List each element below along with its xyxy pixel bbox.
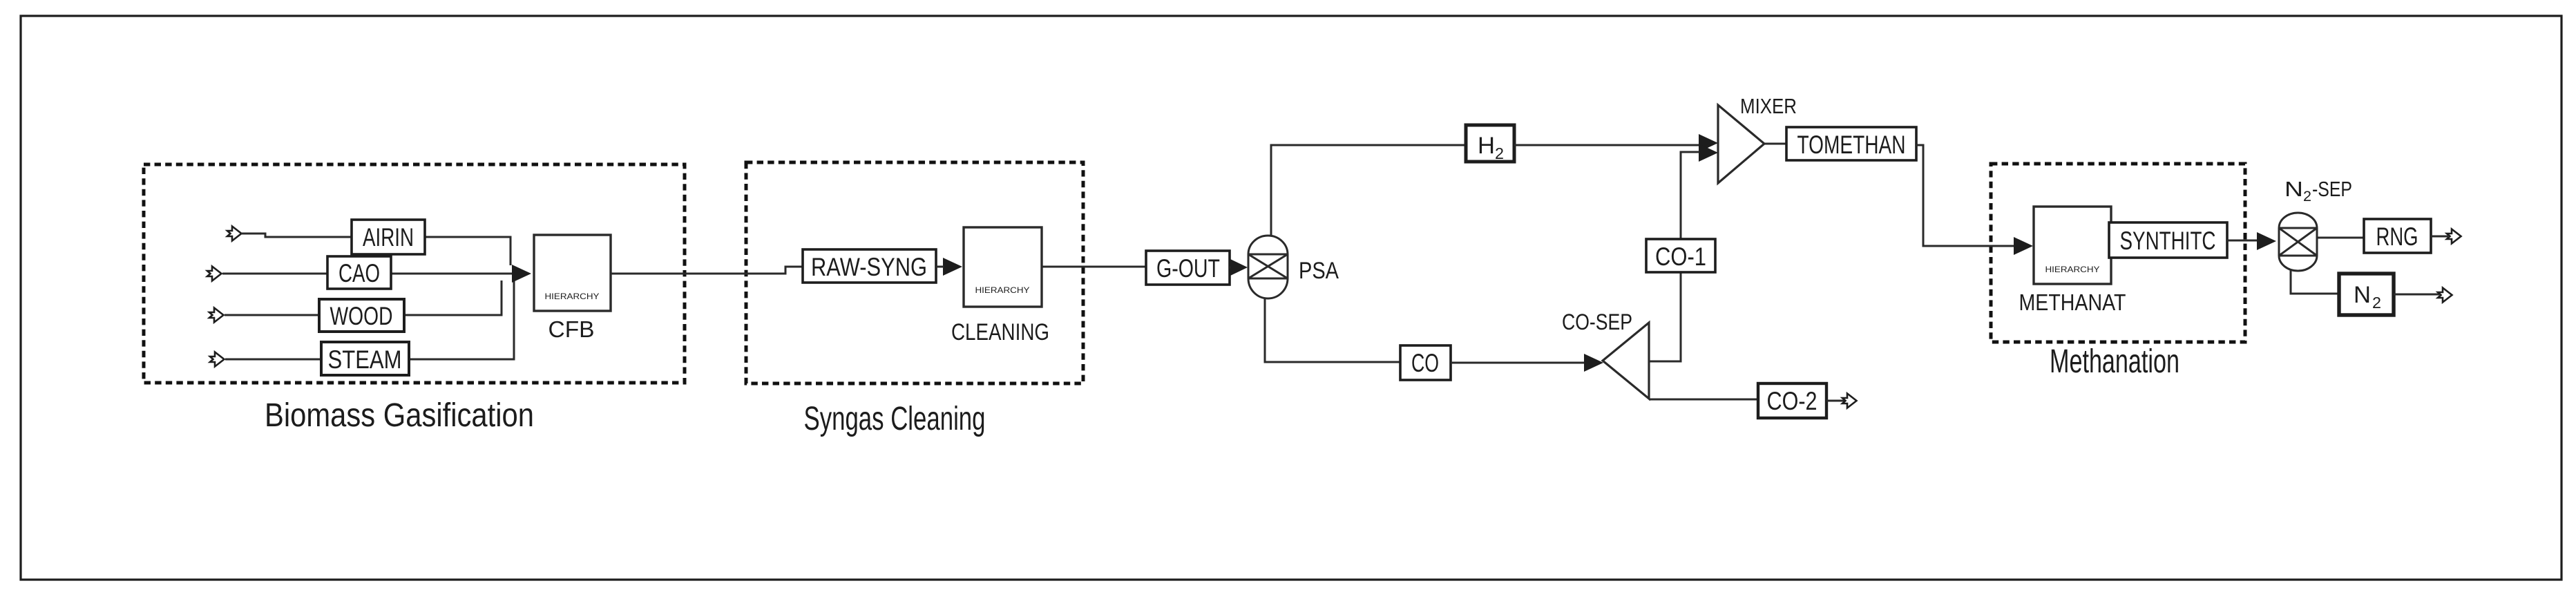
outlet arrow CO-2 <box>1842 394 1857 408</box>
block METHANAT <box>2034 207 2111 284</box>
svg-text:HIERARCHY: HIERARCHY <box>975 285 1030 295</box>
outlet arrow RNG <box>2447 229 2461 244</box>
svg-text:HIERARCHY: HIERARCHY <box>2045 265 2100 274</box>
svg-text:Syngas Cleaning: Syngas Cleaning <box>804 401 986 437</box>
svg-text:Biomass Gasification: Biomass Gasification <box>265 397 534 434</box>
svg-text:2: 2 <box>2303 189 2311 205</box>
feed arrow WOOD <box>209 308 224 323</box>
svg-text:HIERARCHY: HIERARCHY <box>545 292 600 301</box>
svg-text:H: H <box>1478 133 1495 159</box>
arrow into METHANAT <box>2014 237 2033 255</box>
feed arrow STEAM <box>210 352 225 367</box>
wire STEAM <box>225 279 514 359</box>
svg-text:TOMETHAN: TOMETHAN <box>1797 131 1906 159</box>
wire CO-SEP to MIXER via CO-1 <box>1649 152 1699 361</box>
wire CAO <box>222 273 514 275</box>
stream label WOOD <box>319 299 404 332</box>
stream label RNG <box>2364 219 2431 253</box>
svg-text:WOOD: WOOD <box>330 302 393 330</box>
stream label N2 <box>2339 274 2394 315</box>
feed arrow AIRIN <box>227 227 242 241</box>
svg-text:G-OUT: G-OUT <box>1156 254 1220 283</box>
svg-text:CAO: CAO <box>338 259 380 287</box>
svg-text:-SEP: -SEP <box>2312 177 2352 201</box>
block CLEANING <box>964 227 1042 307</box>
wire RNG out <box>2431 236 2448 238</box>
svg-text:CFB: CFB <box>548 316 595 342</box>
wire N2 out <box>2394 294 2439 296</box>
svg-text:SYNTHITC: SYNTHITC <box>2120 227 2216 255</box>
svg-text:CO-1: CO-1 <box>1655 243 1706 271</box>
arrow into PSA <box>1230 267 1232 269</box>
wire PSA to H2 <box>1271 145 1466 236</box>
svg-text:2: 2 <box>1495 144 1504 162</box>
wire CFB to RAW-SYNG <box>611 267 803 274</box>
stream label CO <box>1400 345 1451 380</box>
wire CO-SEP to CO-2 <box>1649 399 1758 401</box>
arrow into CO-SEP <box>1584 354 1603 372</box>
wire TOMETHAN to METHANAT <box>1916 145 2016 246</box>
wire SYNTHITC to N2-SEP <box>2227 240 2259 242</box>
mixer MIXER <box>1718 105 1764 183</box>
stream label G-OUT <box>1146 251 1230 285</box>
feed arrow CAO <box>207 267 222 281</box>
arrow CO-1 into MIXER <box>1699 144 1718 162</box>
svg-text:STEAM: STEAM <box>328 345 402 374</box>
splitter CO-SEP <box>1603 323 1649 399</box>
wire H2 to MIXER <box>1514 144 1699 146</box>
svg-text:AIRIN: AIRIN <box>363 223 414 251</box>
wire WOOD <box>225 281 502 315</box>
separator N2-SEP <box>2279 213 2317 271</box>
svg-text:CO: CO <box>1411 349 1439 377</box>
arrow into CLEANING <box>943 258 962 276</box>
wire AIRIN <box>241 234 511 265</box>
label N2-SEP <box>2284 177 2352 205</box>
svg-text:CLEANING: CLEANING <box>951 319 1049 345</box>
stream label SYNTHITC <box>2109 222 2227 258</box>
svg-text:RNG: RNG <box>2376 222 2418 251</box>
stream label RAW-SYNG <box>803 249 936 283</box>
wire PSA to CO <box>1265 298 1400 362</box>
arrow H2 into MIXER <box>1699 134 1718 152</box>
stream label CO-2 <box>1758 383 1826 418</box>
arrow into CFB <box>512 265 531 283</box>
svg-text:N: N <box>2284 177 2303 201</box>
wire MIXER to TOMETHAN <box>1764 143 1786 145</box>
svg-text:CO-SEP: CO-SEP <box>1562 310 1632 334</box>
stream label TOMETHAN <box>1786 127 1916 160</box>
separator PSA <box>1248 236 1288 298</box>
svg-text:METHANAT: METHANAT <box>2019 289 2126 315</box>
stream label STEAM <box>321 342 409 375</box>
block CFB <box>534 235 611 311</box>
stream label CO-1 <box>1646 239 1715 272</box>
section box Syngas Cleaning <box>746 162 1083 437</box>
wire N2-SEP to RNG <box>2317 237 2364 239</box>
svg-text:PSA: PSA <box>1299 258 1339 284</box>
wire CO-2 out <box>1826 400 1844 402</box>
arrow into N2-SEP <box>2257 232 2276 250</box>
outlet arrow N2 <box>2438 288 2452 303</box>
wire CLEANING to G-OUT <box>1042 266 1146 268</box>
section box Methanation <box>1991 164 2245 380</box>
wire N2-SEP to N2 <box>2291 269 2339 294</box>
stream label H2 <box>1466 125 1514 162</box>
stream label AIRIN <box>352 220 425 254</box>
svg-text:MIXER: MIXER <box>1740 94 1797 118</box>
svg-text:N: N <box>2354 282 2371 308</box>
svg-text:CO-2: CO-2 <box>1767 387 1817 415</box>
svg-text:Methanation: Methanation <box>2050 343 2179 380</box>
section box Biomass Gasification <box>144 164 685 434</box>
stream label CAO <box>327 256 391 289</box>
svg-text:2: 2 <box>2372 294 2381 312</box>
svg-text:RAW-SYNG: RAW-SYNG <box>811 253 927 281</box>
wire CO to CO-SEP <box>1451 362 1585 364</box>
